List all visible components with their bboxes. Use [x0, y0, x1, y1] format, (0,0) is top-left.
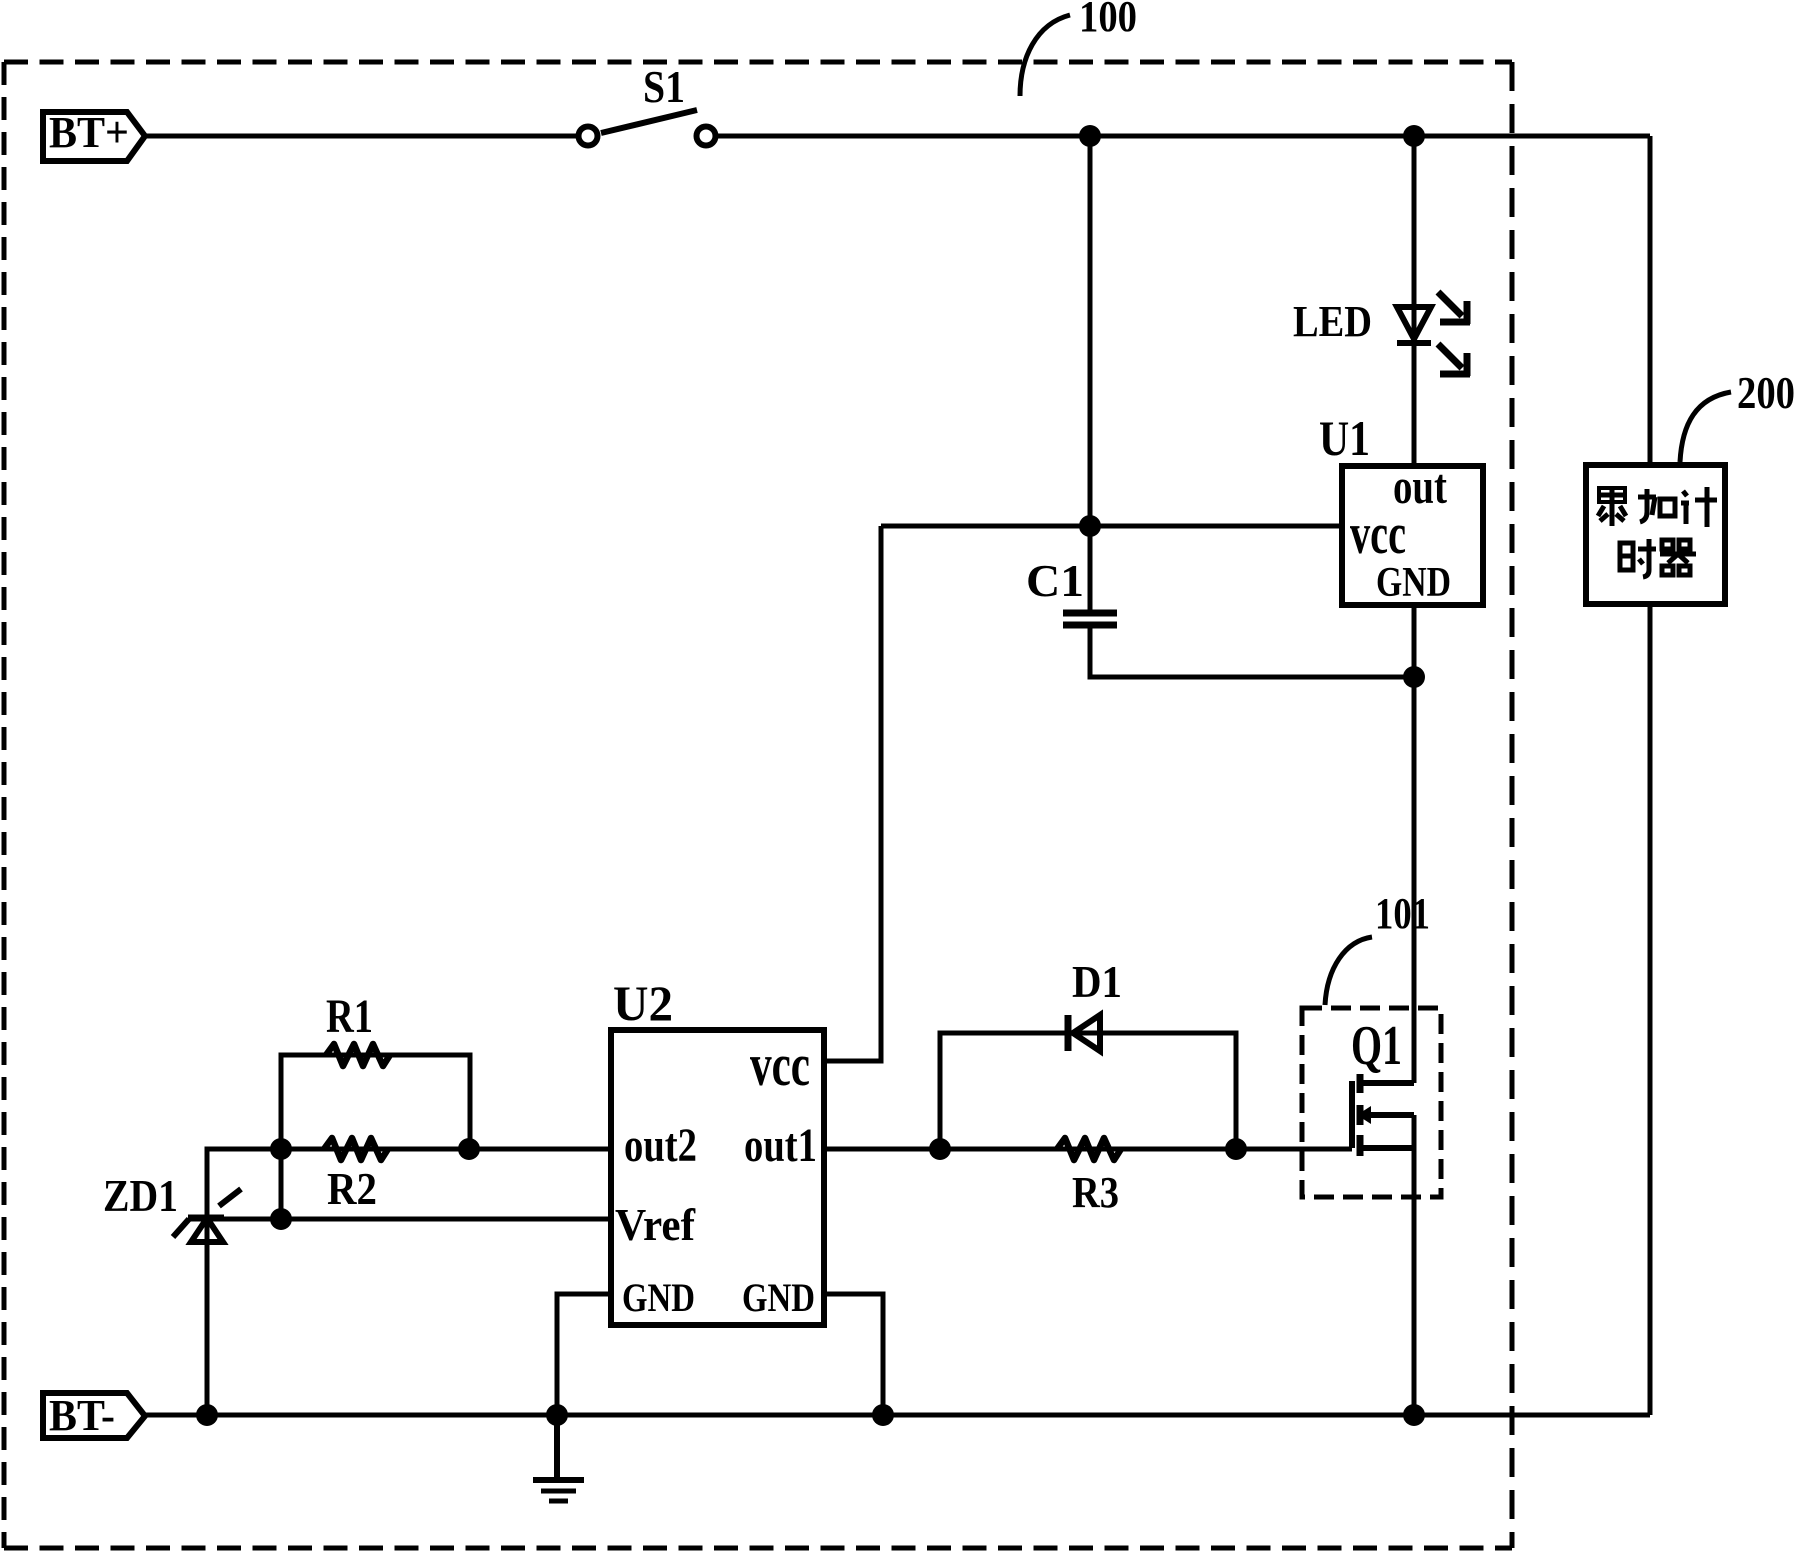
- junction BT-/ZD1: [196, 1404, 218, 1426]
- junction top wire at C1 branch: [1079, 125, 1101, 147]
- zener diode ZD1: [173, 1189, 241, 1242]
- diode D1: [1068, 1015, 1100, 1051]
- resistor R1: [326, 1044, 390, 1066]
- svg-text:Q1: Q1: [1351, 1015, 1402, 1077]
- svg-text:101: 101: [1375, 889, 1430, 938]
- junction BT-/Q1 source: [1403, 1404, 1425, 1426]
- wire Q1 source down to BT-: [1412, 1115, 1417, 1415]
- junction BT-/U2 GND right: [872, 1404, 894, 1426]
- IC U2 box: [611, 1030, 824, 1325]
- timer box 200: [1586, 465, 1725, 604]
- wire U1 vcc to node: [881, 524, 1342, 529]
- diode D1 branch: [940, 1033, 1236, 1149]
- svg-text:Vref: Vref: [615, 1199, 696, 1250]
- junction out2/R1 left: [270, 1138, 292, 1160]
- resistor R2: [324, 1138, 388, 1160]
- wire C1 bottom to U1 GND node: [1090, 627, 1414, 677]
- svg-text:S1: S1: [643, 61, 685, 112]
- junction BT-/ground: [546, 1404, 568, 1426]
- label 200 leader: [1680, 392, 1731, 462]
- wire top to C1: [1088, 136, 1093, 611]
- svg-text:BT-: BT-: [49, 1391, 115, 1440]
- transistor Q1 MOSFET: [1352, 1074, 1414, 1156]
- terminal BT+: [43, 112, 145, 161]
- ground symbol: [533, 1415, 584, 1501]
- wire out2 line to ZD1 corner: [207, 1149, 611, 1415]
- svg-text:out1: out1: [744, 1119, 817, 1172]
- wire U1 GND down to Q1 drain: [1412, 605, 1417, 1083]
- junction out1/D1 left: [929, 1138, 951, 1160]
- capacitor C1: [1063, 613, 1117, 625]
- terminal BT-: [43, 1393, 145, 1438]
- svg-text:GND: GND: [742, 1275, 815, 1320]
- wire U2 vcc up to U1 vcc: [824, 526, 881, 1061]
- timer box 200 text line1 (pseudo CJK 累加计): [1598, 487, 1717, 527]
- label 100 leader: [1020, 15, 1070, 96]
- LED light arrow 1: [1438, 292, 1470, 324]
- svg-text:U1: U1: [1319, 410, 1370, 466]
- timer box 200 text line2 (pseudo CJK 时器): [1620, 539, 1696, 577]
- wire out2 node to Vref node: [279, 1149, 284, 1219]
- svg-text:C1: C1: [1026, 555, 1084, 606]
- svg-text:vcc: vcc: [1350, 501, 1406, 566]
- svg-text:GND: GND: [1376, 560, 1451, 606]
- junction Vref node: [270, 1208, 292, 1230]
- wire U2 GND right to BT- line: [824, 1294, 883, 1415]
- switch S1: [579, 110, 716, 146]
- wire U2 GND left to ground: [557, 1294, 611, 1415]
- resistor R3: [1057, 1138, 1121, 1160]
- svg-text:R1: R1: [326, 990, 373, 1043]
- svg-text:D1: D1: [1072, 956, 1122, 1007]
- wire BT- line: [145, 1413, 1650, 1418]
- wire out1 line to Q1 gate: [824, 1147, 1352, 1152]
- wire LED branch vertical: [1412, 136, 1417, 466]
- junction top wire at LED branch: [1403, 125, 1425, 147]
- wire right vertical lower (timer box to BT- line): [1648, 604, 1653, 1415]
- svg-text:R2: R2: [327, 1163, 377, 1214]
- svg-text:ZD1: ZD1: [103, 1170, 178, 1221]
- svg-text:R3: R3: [1072, 1168, 1119, 1217]
- junction out1/D1 right: [1225, 1138, 1247, 1160]
- label 101 leader: [1325, 937, 1372, 1005]
- IC U1 box: [1342, 466, 1483, 605]
- svg-text:out2: out2: [624, 1119, 697, 1172]
- junction U1 GND node: [1403, 666, 1425, 688]
- wire BT+ to switch: [145, 134, 578, 139]
- junction vcc node: [1079, 515, 1101, 537]
- resistor R1 loop: [281, 1055, 470, 1149]
- wire switch to top-right corner: [716, 134, 1650, 139]
- dashed box 101 around Q1: [1302, 1008, 1441, 1197]
- svg-text:LED: LED: [1293, 297, 1372, 346]
- svg-text:BT+: BT+: [49, 108, 129, 157]
- svg-text:100: 100: [1079, 0, 1137, 41]
- LED diode: [1397, 307, 1431, 343]
- wire right vertical upper (to timer box): [1648, 136, 1653, 465]
- wire Vref line: [207, 1217, 611, 1222]
- LED light arrow 2: [1438, 344, 1470, 376]
- svg-text:U2: U2: [613, 975, 673, 1031]
- svg-text:200: 200: [1737, 367, 1795, 418]
- junction out2/R1 right: [458, 1138, 480, 1160]
- svg-text:vcc: vcc: [750, 1032, 810, 1098]
- svg-text:GND: GND: [622, 1275, 695, 1320]
